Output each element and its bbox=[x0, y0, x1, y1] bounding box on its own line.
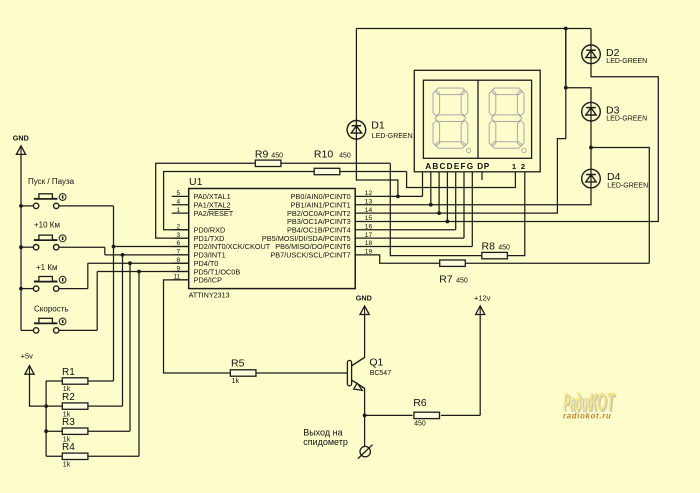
svg-text:+12v: +12v bbox=[474, 293, 491, 302]
wire segment G to pin 18 bbox=[471, 172, 473, 247]
svg-text:GND: GND bbox=[356, 293, 372, 302]
resistor R4 1k bbox=[46, 442, 139, 468]
transistor Q1 BC547 bbox=[347, 314, 391, 390]
wire +5v to resistor bus bbox=[30, 374, 47, 406]
pin 2 PD0/RXD bbox=[172, 224, 225, 235]
pin 5 PA0/XTAL1 bbox=[172, 190, 231, 201]
svg-text:+1 Км: +1 Км bbox=[36, 263, 58, 272]
wire resistor feed bus bbox=[45, 381, 47, 456]
wire pin12 row bbox=[355, 195, 422, 197]
wire segment E to pin 16 bbox=[455, 172, 457, 230]
wire pin7 row bbox=[105, 254, 189, 256]
resistor R3 1k bbox=[46, 417, 130, 443]
svg-text:450: 450 bbox=[456, 278, 468, 285]
svg-text:ATTINY2313: ATTINY2313 bbox=[189, 290, 230, 299]
wire pin18 row bbox=[355, 246, 472, 248]
svg-text:2: 2 bbox=[521, 162, 525, 171]
svg-text:6: 6 bbox=[177, 240, 181, 247]
resistor R7 450 bbox=[439, 148, 649, 286]
node junction D/pin15 bbox=[446, 220, 450, 224]
digit 1 segments bbox=[433, 88, 471, 153]
wire R4 column bbox=[138, 272, 140, 457]
wire segment A to pin 12 bbox=[422, 172, 424, 197]
wire R10 to display pin 1 bbox=[407, 172, 516, 188]
resistor R2 1k bbox=[46, 392, 122, 418]
output terminal Выход на спидометр bbox=[303, 427, 372, 458]
svg-text:R7: R7 bbox=[439, 274, 453, 286]
node junction R3/pin8 bbox=[128, 261, 132, 265]
pin 19 PB7/USCK/SCL/PCINT7 bbox=[270, 249, 372, 260]
pin 9 PD5/T1/OC0B bbox=[172, 265, 241, 276]
pin 12 PB0/AIN0/PCINT0 bbox=[291, 190, 373, 201]
switch S4 Скорость bbox=[21, 304, 97, 333]
wire top rail D1-D2 anodes bbox=[356, 28, 591, 30]
svg-text:radiokot.ru: radiokot.ru bbox=[563, 411, 611, 420]
display pin letters bbox=[425, 162, 525, 171]
pin 15 PB3/OC1A/PCINT3 bbox=[287, 215, 372, 226]
svg-text:5: 5 bbox=[177, 190, 181, 197]
svg-text:LED-GREEN: LED-GREEN bbox=[372, 133, 413, 140]
wire D3 anode branch bbox=[566, 29, 591, 103]
svg-text:R1: R1 bbox=[62, 367, 75, 378]
wire pin13 row to D4 cathode bbox=[355, 188, 591, 205]
svg-text:GND: GND bbox=[13, 134, 29, 143]
wire R2 column bbox=[122, 255, 124, 406]
svg-text:ABCDEFG: ABCDEFG bbox=[425, 162, 474, 171]
wire R9 to R8 (column x=390) bbox=[390, 163, 481, 255]
svg-text:D2: D2 bbox=[606, 47, 620, 59]
resistor R8 450 bbox=[482, 241, 510, 259]
pin 6 PD2/INT0/XCK/CKOUT bbox=[172, 240, 271, 251]
svg-text:LED-GREEN: LED-GREEN bbox=[606, 116, 647, 123]
wire button3 jog up to pin8 row bbox=[87, 263, 89, 288]
svg-text:D4: D4 bbox=[607, 171, 621, 183]
svg-text:Пуск / Пауза: Пуск / Пауза bbox=[28, 177, 75, 186]
svg-text:R5: R5 bbox=[231, 357, 245, 369]
svg-text:1k: 1k bbox=[63, 462, 71, 469]
svg-text:Скорость: Скорость bbox=[34, 304, 69, 313]
PA2 RESET overline bbox=[209, 209, 230, 211]
svg-text:D3: D3 bbox=[606, 104, 620, 116]
wire pin9 row bbox=[97, 271, 189, 273]
wire display pin 2 down to R8 bbox=[508, 172, 525, 256]
svg-text:R10: R10 bbox=[314, 148, 333, 160]
node junction D3 anode bbox=[564, 86, 568, 90]
node junction C/pin14 bbox=[437, 211, 441, 215]
svg-text:R9: R9 bbox=[255, 148, 269, 160]
pin 13 PB1/AIN1/PCINT1 bbox=[291, 198, 373, 209]
svg-text:спидометр: спидометр bbox=[303, 437, 348, 447]
svg-text:450: 450 bbox=[271, 152, 283, 159]
svg-text:+5v: +5v bbox=[21, 352, 34, 361]
wire D3 cathode to D4 anode bbox=[590, 121, 592, 169]
node junction R1/button1/pin6 bbox=[112, 245, 116, 249]
svg-text:8: 8 bbox=[177, 257, 181, 264]
LED D4 LED-GREEN bbox=[582, 169, 648, 189]
pin 7 PD3/INT1 bbox=[172, 249, 226, 260]
wire pin8 row bbox=[88, 262, 189, 264]
switch S3 +1 Км bbox=[21, 263, 88, 292]
svg-text:9: 9 bbox=[177, 265, 181, 272]
wire D1 cathode to pin12 bbox=[356, 139, 398, 196]
wire pin11 to R5 bbox=[164, 280, 231, 373]
svg-text:Выход на: Выход на bbox=[303, 427, 342, 437]
pin 16 PB4/OC1B/PCINT4 bbox=[287, 224, 372, 235]
svg-text:R3: R3 bbox=[62, 417, 75, 428]
pin 14 PB2/OC0A/PCINT2 bbox=[287, 207, 372, 218]
wire emitter down to output bbox=[364, 388, 366, 446]
wire segment C to pin 14 bbox=[438, 172, 440, 213]
switch S2 +10 Км bbox=[21, 221, 105, 250]
node junction top rail / D3 branch bbox=[564, 27, 568, 31]
pin 3 PD1/TXD bbox=[172, 232, 225, 243]
svg-text:U1: U1 bbox=[189, 176, 203, 188]
wire DP stub bbox=[481, 172, 483, 180]
svg-text:450: 450 bbox=[414, 420, 426, 427]
pin 17 PB5/MOSI/DI/SDA/PCINT5 bbox=[262, 232, 373, 243]
resistor R10 450 bbox=[164, 148, 407, 229]
svg-text:450: 450 bbox=[339, 152, 351, 159]
node junction bus-button2 bbox=[19, 245, 23, 249]
wire pin19 row to R7 bbox=[355, 255, 439, 263]
node junction emitter/R6/output bbox=[363, 414, 367, 418]
7-segment display DISP1 (two digits) bbox=[414, 70, 540, 172]
pin 8 PD4/T0 bbox=[172, 257, 219, 268]
wire button1 to pin6 column bbox=[113, 206, 115, 381]
resistor R1 1k bbox=[46, 367, 113, 393]
svg-text:Q1: Q1 bbox=[369, 356, 383, 368]
svg-text:PD6/ICP: PD6/ICP bbox=[194, 276, 223, 285]
wire segment D to pin 15 bbox=[446, 172, 448, 222]
pin 4 PA1/XTAL2 bbox=[172, 198, 231, 209]
svg-text:LED-GREEN: LED-GREEN bbox=[607, 183, 648, 190]
svg-text:R2: R2 bbox=[62, 392, 75, 403]
svg-text:1k: 1k bbox=[232, 378, 240, 385]
resistor R6 450 bbox=[365, 397, 481, 427]
svg-text:BC547: BC547 bbox=[370, 370, 392, 377]
svg-text:450: 450 bbox=[498, 245, 510, 252]
wire segment B to pin 13 bbox=[430, 172, 432, 205]
pin 18 PB6/MISO/DO/PCINT6 bbox=[275, 240, 372, 251]
resistor R5 1k bbox=[230, 357, 347, 385]
node junction R2/pin7 bbox=[121, 253, 125, 257]
node junction D1/pin12 bbox=[396, 195, 400, 199]
watermark РадиоКОТ logo bbox=[563, 389, 617, 420]
node junction bus/R3 bbox=[44, 429, 48, 433]
wire segment F to pin 17 bbox=[463, 172, 465, 238]
wire pin6 row bbox=[114, 246, 189, 248]
wire pin15 row to D2 cathode bbox=[355, 64, 658, 222]
node junction +5v/R2 bbox=[44, 404, 48, 408]
resistor R9 450 bbox=[156, 148, 391, 238]
svg-text:R8: R8 bbox=[482, 241, 496, 253]
svg-text:R6: R6 bbox=[413, 397, 427, 409]
svg-text:7: 7 bbox=[177, 249, 181, 256]
node junction bus-button1 bbox=[19, 204, 23, 208]
wire left bus from GND down to button 4 bbox=[20, 154, 22, 330]
power +12v bbox=[474, 293, 491, 415]
switch S1 Пуск / Пауза bbox=[21, 177, 114, 209]
svg-text:PA2/RESET: PA2/RESET bbox=[194, 209, 234, 218]
pin 1 PA2/RESET bbox=[172, 207, 234, 218]
svg-text:+10 Км: +10 Км bbox=[34, 221, 60, 230]
wire button4 jog up to pin9 row bbox=[96, 272, 98, 331]
svg-text:R4: R4 bbox=[62, 442, 75, 453]
ground GND (at Q1 collector) bbox=[356, 293, 372, 314]
wire pin14 row to LED tops bbox=[355, 29, 566, 214]
digit 2 segments bbox=[489, 88, 526, 153]
node junction bus-button3 bbox=[19, 287, 23, 291]
svg-text:LED-GREEN: LED-GREEN bbox=[606, 58, 647, 65]
LED D2 LED-GREEN bbox=[582, 29, 647, 66]
wire button2 jog down to pin7 row bbox=[104, 247, 106, 255]
node junction R4/pin9 bbox=[137, 270, 141, 274]
wire pin17 row bbox=[355, 237, 464, 239]
wire R3 column bbox=[129, 263, 131, 431]
op-amp U1 ATTINY2313 (microcontroller) bbox=[189, 176, 356, 299]
LED D1 LED-GREEN bbox=[347, 29, 413, 140]
pin 11 PD6/ICP bbox=[172, 274, 222, 285]
svg-text:1: 1 bbox=[177, 207, 181, 214]
node junction D3cathode/D4anode/R7 bbox=[589, 146, 593, 150]
svg-text:4: 4 bbox=[177, 198, 181, 205]
svg-text:DP: DP bbox=[477, 162, 489, 171]
node junction B/pin13 bbox=[429, 203, 433, 207]
LED D3 LED-GREEN bbox=[582, 102, 647, 122]
svg-text:D1: D1 bbox=[371, 119, 385, 131]
svg-text:PB7/USCK/SCL/PCINT7: PB7/USCK/SCL/PCINT7 bbox=[270, 251, 350, 260]
wire pin16 row bbox=[355, 229, 456, 231]
